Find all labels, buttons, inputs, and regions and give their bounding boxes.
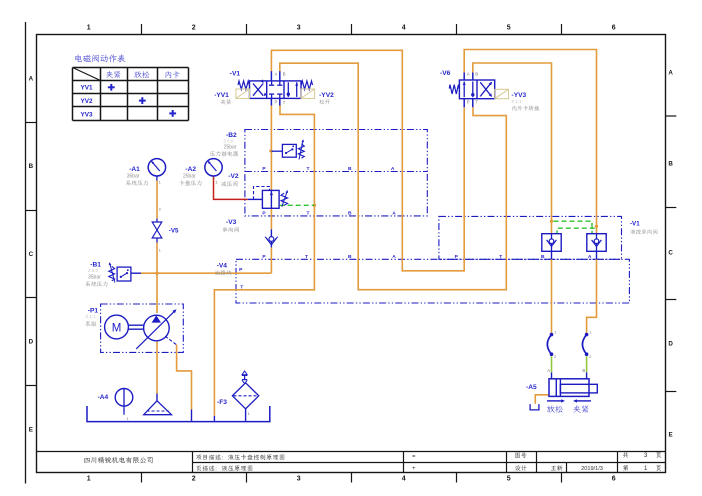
svg-text:A: A [668, 69, 673, 76]
wire blue stub -V1 ports [271, 71, 279, 105]
frame inner border [37, 35, 666, 473]
svg-text:B: B [668, 160, 673, 167]
svg-text:YV1: YV1 [80, 85, 93, 92]
title company name [84, 457, 152, 463]
motor -P1 M circle [105, 315, 145, 339]
title designer name [551, 465, 563, 471]
label -B2 25bar [224, 145, 237, 151]
port letters -V6 [467, 72, 479, 105]
wire blue tip drain-to-tank [191, 410, 193, 421]
pump case drain dashed [165, 336, 176, 345]
svg-text:3: 3 [297, 476, 301, 483]
svg-text:B: B [582, 368, 585, 373]
wire green coupling-to-cylinder right [586, 356, 588, 372]
svg-text:A: A [588, 254, 592, 260]
table header 放松 [134, 71, 149, 78]
label cylinder port A [547, 368, 550, 373]
label -B1 desc 系统压力 [86, 281, 108, 286]
svg-text:=: = [412, 454, 416, 460]
svg-text:-V2: -V2 [228, 173, 239, 180]
table header 夹紧 [106, 71, 121, 78]
label -V4 [217, 262, 228, 269]
svg-text:YV2: YV2 [80, 98, 93, 105]
svg-text:-A4: -A4 [98, 394, 109, 401]
svg-text:Z 1:1: Z 1:1 [512, 99, 523, 104]
label -A1 35bar [127, 174, 140, 180]
title page desc [196, 465, 252, 470]
label -B2 desc 压力继电器 [210, 151, 238, 156]
valve -V1 center position blocked [269, 81, 282, 99]
svg-text:P: P [467, 99, 470, 104]
svg-text:B: B [348, 211, 352, 217]
wire blue tip filter-to-tank [245, 409, 247, 421]
arrow release direction [547, 399, 565, 402]
frame top column ticks [142, 24, 562, 35]
label -F3 [217, 399, 227, 406]
wire A loop from -V1 A port [271, 50, 464, 270]
label -B1 35bar [88, 274, 101, 280]
pilot green dashed upper crossover [554, 221, 593, 234]
table title [75, 54, 125, 62]
svg-text:5: 5 [507, 25, 511, 32]
label -V3 desc 单向阀 [222, 227, 238, 232]
valve -V6 body [459, 80, 494, 99]
svg-text:Z 6:0: Z 6:0 [223, 139, 234, 144]
label -A5 [526, 384, 537, 391]
label -V6 [440, 70, 451, 77]
pressure gauge -A2 [205, 159, 222, 177]
node junction right check pilot [595, 225, 598, 228]
valve -V1 body left position crossed [250, 79, 302, 98]
title plus sign [412, 466, 416, 472]
pressure switch -B1 box [117, 267, 131, 281]
label -YV1 desc 夹紧 [221, 99, 231, 104]
check valve -V3 [265, 229, 278, 247]
label -YV2 desc 松开 [319, 99, 330, 104]
pilot check valve -V7 right [587, 234, 606, 252]
label -F3 port [248, 412, 250, 416]
rotary coupling left [547, 330, 556, 358]
svg-text:A: A [392, 211, 396, 217]
svg-text:B: B [29, 163, 34, 170]
svg-text:-YV1: -YV1 [214, 92, 229, 99]
svg-text:D: D [29, 339, 34, 346]
node junction P-column to -B2 [269, 149, 272, 152]
svg-text:M: M [112, 322, 122, 334]
table grid [73, 68, 189, 121]
frame outer left line [25, 22, 27, 484]
svg-text:A: A [392, 254, 396, 260]
title page number [623, 465, 661, 472]
svg-text:B: B [475, 72, 478, 77]
label 夹紧 clamp [573, 405, 588, 413]
label -YV1 [214, 92, 229, 99]
svg-text:-F3: -F3 [217, 399, 227, 406]
svg-text:B: B [348, 254, 352, 260]
wire -V6 B-port loop to left check valve [473, 63, 552, 234]
wire right check valve to rotary coupling [587, 251, 597, 333]
tank outline [87, 406, 270, 422]
cylinder drain tank symbol [530, 404, 539, 410]
label -YV3 ref [512, 99, 523, 104]
svg-text:A: A [29, 76, 34, 83]
svg-text:-YV3: -YV3 [512, 92, 527, 99]
manifold row2 line [245, 171, 427, 173]
label -V3 [226, 219, 237, 226]
thermometer -A4 [115, 389, 133, 415]
label -V2 [228, 173, 239, 180]
label -A1 [129, 166, 140, 173]
svg-text:1: 1 [248, 412, 250, 416]
label -B2 ref [223, 139, 234, 144]
svg-text:E: E [669, 431, 673, 438]
label -A2 [185, 166, 196, 173]
svg-text:T: T [307, 211, 310, 217]
port labels above row2 [262, 166, 394, 172]
frame top column labels 1-6 [87, 25, 616, 32]
svg-text:A: A [547, 368, 550, 373]
wire tank return drop [0, 0, 1, 1]
pump -P1 variable displacement circle [136, 309, 176, 349]
svg-text:-A5: -A5 [526, 384, 537, 391]
wire red gauge A2 line [214, 177, 248, 200]
wire gauge A1 branch [156, 181, 158, 274]
svg-text:C: C [668, 250, 673, 257]
label -P1 desc 泵组 [85, 321, 96, 326]
reducing valve -V2 spring [281, 190, 288, 207]
title design label [515, 465, 527, 471]
manifold pilot-check box -V7 outline [439, 216, 622, 259]
table plus YV3-innerclamp [169, 110, 176, 117]
svg-text:4: 4 [402, 25, 406, 32]
port labels above row3 [262, 211, 396, 217]
svg-text:T: T [499, 254, 502, 260]
svg-text:35bar: 35bar [127, 174, 140, 180]
port label -V4 P left [239, 267, 243, 273]
svg-text:-V1: -V1 [230, 71, 241, 78]
svg-text:YV3: YV3 [80, 111, 93, 118]
valve -V6 spring [449, 85, 459, 94]
svg-text:1: 1 [87, 25, 91, 32]
wire blue stub cylinder B [586, 373, 588, 379]
cylinder -A5 [549, 379, 597, 397]
label -B1 ref [88, 268, 99, 273]
label -V5 port 2 [159, 207, 161, 211]
svg-text:T: T [283, 100, 286, 105]
title project desc [196, 454, 284, 460]
svg-text:+: + [412, 466, 416, 472]
port labels above row4 [262, 254, 591, 260]
solenoid -YV3 box [495, 89, 509, 98]
svg-text:D: D [668, 340, 673, 347]
suction strainer [144, 401, 172, 415]
svg-text:2: 2 [192, 25, 196, 32]
label 放松 release [547, 405, 563, 412]
wire pump outlet [156, 273, 158, 313]
svg-text:1: 1 [589, 330, 591, 334]
frame left row labels A-E [29, 76, 34, 434]
svg-text:1: 1 [159, 249, 161, 253]
node junction pump-B1-P [155, 272, 158, 275]
svg-text:5: 5 [507, 476, 511, 483]
valve -V1 right spring [301, 81, 312, 89]
svg-text:25bar: 25bar [224, 145, 237, 151]
svg-text:2019/1/3: 2019/1/3 [581, 466, 603, 472]
svg-text:-V4: -V4 [217, 262, 228, 269]
wire P column vertical [270, 105, 272, 273]
label -YV2 [319, 92, 334, 99]
pump unit dash-dot box [101, 304, 184, 352]
svg-text:2: 2 [159, 207, 161, 211]
svg-text:6: 6 [612, 476, 616, 483]
node junction T-column green pilot [313, 204, 316, 207]
pressure relay -B2 spring [298, 139, 304, 159]
svg-text:2: 2 [192, 476, 196, 483]
frame bottom column ticks [142, 473, 562, 483]
svg-text:C: C [29, 251, 34, 258]
label -B2 [226, 132, 237, 139]
label -P1 [88, 308, 99, 315]
svg-text:1: 1 [215, 180, 217, 184]
svg-text:3: 3 [297, 25, 301, 32]
label -A1 desc 系统压力 [126, 180, 148, 185]
svg-text:25bar: 25bar [183, 174, 196, 180]
manifold block -V4 outline [236, 259, 629, 303]
valve -V1 right position parallel [287, 82, 299, 97]
svg-text:-A2: -A2 [185, 166, 196, 173]
label -YV3 desc 内外卡转换 [512, 106, 539, 111]
svg-text:6: 6 [612, 25, 616, 32]
solenoid -YV1 box [236, 89, 250, 98]
label -P1 ref [86, 314, 97, 319]
title block grid [37, 452, 666, 473]
solenoid -YV2 box [301, 89, 315, 98]
svg-text:-V5: -V5 [169, 227, 179, 234]
reducing valve -V2 pilot dashed [254, 187, 270, 200]
wire blue stub -V6 ports [464, 73, 473, 108]
table plus YV2-release [139, 97, 146, 104]
pilot check valve -V7 left [542, 234, 561, 252]
svg-text:35bar: 35bar [88, 274, 101, 280]
svg-text:2: 2 [589, 355, 591, 359]
table row label YV3 [80, 111, 93, 118]
label -A2 25bar [183, 174, 196, 180]
pilot green dashed lower crossover [557, 228, 595, 234]
table plus YV1-clamp [108, 84, 115, 91]
svg-text:-V6: -V6 [440, 70, 451, 77]
svg-text:B: B [348, 166, 352, 172]
wire blue stub cylinder A [551, 373, 553, 379]
wire left check valve to rotary coupling [551, 251, 553, 333]
port letters -V1 [275, 71, 286, 105]
svg-text:1: 1 [127, 417, 129, 421]
svg-text:1: 1 [159, 180, 161, 184]
svg-text:-A1: -A1 [129, 166, 140, 173]
label -V7 [630, 220, 640, 227]
valve -V1 left spring [238, 81, 249, 89]
title total pages [623, 452, 661, 459]
svg-text:B: B [541, 254, 545, 260]
table row label YV1 [80, 85, 93, 92]
wire T column [214, 105, 314, 416]
return filter -F3 [232, 371, 258, 409]
label -A4 [98, 394, 109, 401]
pilot green dashed -V2 drain [280, 204, 315, 206]
svg-text:E: E [29, 426, 33, 433]
pressure gauge -A1 [148, 159, 165, 181]
frame right row labels A-E [668, 69, 673, 438]
svg-text:Z 1:1: Z 1:1 [86, 314, 97, 319]
label -V5 [169, 227, 179, 234]
wire blue gauge line into -V2 [248, 198, 263, 200]
reducing valve -V2 body [262, 190, 279, 208]
frame left row ticks [26, 123, 37, 386]
svg-text:T: T [305, 254, 308, 260]
label -V1 [230, 71, 241, 78]
wire cylinder rod-end drain [535, 395, 549, 404]
label -A2 port 1 [215, 180, 217, 184]
svg-text:-YV2: -YV2 [319, 92, 334, 99]
pressure relay -B2 box [282, 144, 296, 157]
shutoff valve -V5 bowtie [152, 219, 162, 243]
pressure switch -B1 spring [109, 262, 115, 282]
wire blue tip return-to-tank [213, 416, 215, 421]
node junction left check pilot [550, 220, 553, 223]
label -V7 desc 液控单向阀 [630, 229, 657, 234]
svg-text:B: B [283, 71, 286, 76]
wire -V6 A-port loop to right check valve [464, 50, 596, 234]
label cylinder port B [582, 368, 585, 373]
wire green coupling-to-cylinder left [551, 356, 553, 372]
svg-text:1: 1 [554, 330, 556, 334]
svg-text:A: A [391, 166, 395, 172]
arrow clamp direction [573, 399, 591, 402]
title eq sign [412, 454, 416, 460]
wire pump suction [156, 342, 158, 394]
label -V5 port 1 [159, 249, 161, 253]
title drawing-no label [515, 453, 526, 458]
wire pump case drain [177, 345, 192, 410]
port label -V4 T left [240, 284, 243, 290]
svg-text:1: 1 [87, 476, 91, 483]
manifold box rows1-3 outline [245, 130, 427, 216]
rotary coupling right [582, 330, 591, 358]
svg-text:T: T [307, 166, 310, 172]
wire blue stub suction-strainer [156, 394, 158, 401]
svg-text:-V3: -V3 [226, 219, 237, 226]
svg-text:Z 5:0: Z 5:0 [88, 268, 99, 273]
label -YV3 [512, 92, 527, 99]
table header 内卡 [166, 71, 180, 78]
label -A1 port 1 [159, 180, 161, 184]
svg-text:-V1: -V1 [630, 220, 640, 227]
svg-text:A: A [467, 72, 470, 77]
label -V2 desc 减压阀 [221, 181, 237, 186]
label -V4 desc 油路块 [215, 270, 232, 275]
label -A2 desc 卡盘压力 [179, 180, 201, 185]
label -A4 port [127, 417, 129, 421]
svg-text:T: T [475, 100, 478, 105]
svg-text:2: 2 [554, 355, 556, 359]
wire -B2 connection [271, 150, 282, 152]
svg-text:A: A [275, 71, 278, 76]
title date [581, 466, 603, 472]
frame bottom column labels 1-6 [87, 476, 616, 483]
svg-text:4: 4 [402, 476, 406, 483]
svg-text:P: P [275, 100, 278, 105]
wire pump pressure horizontal [131, 272, 272, 274]
label -B1 [90, 262, 101, 269]
wire B loop from -V1 B port [280, 63, 507, 290]
frame right row ticks [666, 116, 677, 392]
table row label YV2 [80, 98, 93, 105]
